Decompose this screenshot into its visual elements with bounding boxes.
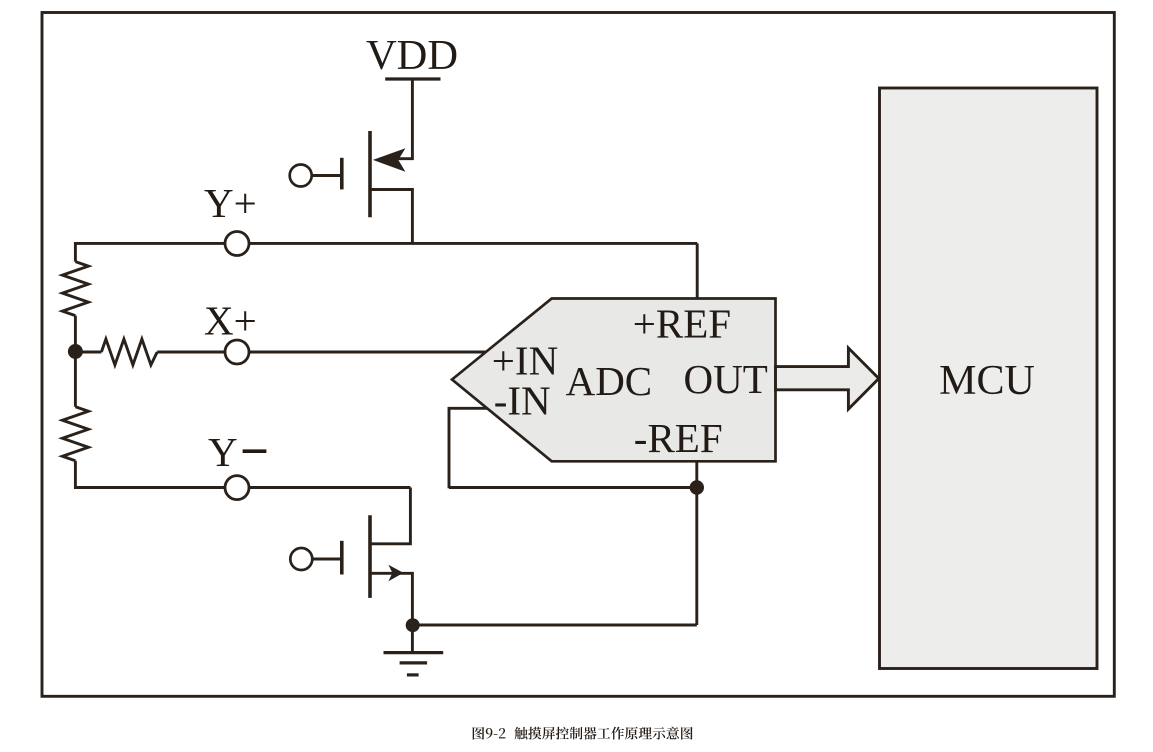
wire: -IN to -REF bottom run xyxy=(449,486,697,489)
junction dot at Q2 source/ground xyxy=(406,618,420,632)
wire: -IN stub and vertical xyxy=(449,408,488,488)
caption xyxy=(473,727,693,740)
wire: X+ row horizontal to ADC +IN xyxy=(157,351,486,354)
wire: left vertical upper stub xyxy=(74,242,77,262)
Q1 source arrow xyxy=(373,148,406,172)
node A junction dot xyxy=(68,344,83,359)
Q2 gate bar xyxy=(340,541,344,575)
Q1 gate lead xyxy=(312,174,341,177)
junction dot at -REF node xyxy=(690,480,704,494)
wire: VDD to Q1 source xyxy=(396,79,412,159)
resistor R3 (horizontal zigzag) xyxy=(101,339,157,365)
Q2 source arrow xyxy=(388,565,403,581)
OUT bus arrow to MCU xyxy=(776,348,879,409)
resistor R1 (vertical zigzag) xyxy=(62,262,88,316)
svg-text:OUT: OUT xyxy=(684,356,768,402)
Q2 channel bar xyxy=(368,515,372,598)
Q2 source lead with arrow xyxy=(370,573,413,625)
terminal circle Y- xyxy=(225,476,249,500)
svg-text:MCU: MCU xyxy=(939,358,1035,404)
Q2 gate terminal circle xyxy=(290,548,312,570)
svg-text:VDD: VDD xyxy=(366,32,458,79)
wire: left vertical lower stub xyxy=(74,461,77,489)
terminal circle X+ xyxy=(225,340,249,364)
ADC block (pentagon) xyxy=(452,299,776,462)
wire: node to R3 xyxy=(75,351,101,354)
terminal circle Y+ xyxy=(225,232,249,256)
ground symbol xyxy=(411,625,414,652)
Q1 gate terminal circle xyxy=(290,165,312,187)
wire: Q1 drain to Y+ row xyxy=(370,190,413,244)
wire: -REF drop from ADC bottom xyxy=(695,461,698,487)
wire: Y+ row horizontal xyxy=(75,242,697,245)
wire: source node to ground rail xyxy=(412,624,696,627)
svg-text:-REF: -REF xyxy=(634,415,723,461)
Q1 gate bar xyxy=(340,158,344,190)
VDD rail bar xyxy=(385,77,440,80)
MCU block xyxy=(880,88,1098,669)
resistor R2 (vertical zigzag) xyxy=(62,407,88,461)
Q2 gate lead xyxy=(312,558,341,561)
wire: Y- to bottom transistor drain xyxy=(370,488,411,544)
svg-text:-IN: -IN xyxy=(494,377,551,423)
svg-text:+REF: +REF xyxy=(633,301,731,347)
wire: -REF net vertical riser xyxy=(695,488,698,626)
svg-text:Y: Y xyxy=(208,429,238,475)
wire: +REF drop from Y+ row to ADC top xyxy=(696,243,699,298)
svg-text:ADC: ADC xyxy=(566,358,653,404)
Q1 channel bar xyxy=(368,131,372,217)
wire: Y- row horizontal xyxy=(75,486,410,489)
svg-text:Y+: Y+ xyxy=(204,180,257,226)
wire: left vertical middle xyxy=(74,316,77,407)
svg-text:X+: X+ xyxy=(204,298,257,344)
